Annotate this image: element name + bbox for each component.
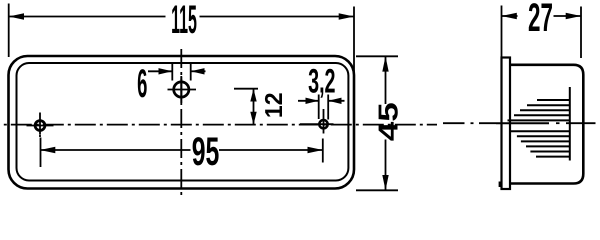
svg-text:45: 45 — [373, 102, 404, 141]
horizontal centerline (front view) — [0, 124, 437, 126]
dimension 27 (side view) — [502, 0, 582, 58]
svg-text:115: 115 — [171, 0, 197, 42]
side view: lens inner edge — [569, 87, 571, 161]
dimension 115 — [9, 0, 354, 72]
side view: plate foot mark — [499, 182, 501, 188]
dimension 6 (top hole) — [137, 62, 205, 106]
dimension 3,2 (small hole) — [298, 63, 345, 120]
left mounting hole — [27, 113, 54, 135]
side view: lens optic hatch lines — [508, 100, 571, 157]
side view: mounting plate — [502, 58, 511, 190]
svg-text:6: 6 — [137, 62, 147, 106]
svg-text:12: 12 — [261, 92, 288, 118]
vertical centerline (front view) — [180, 49, 182, 198]
svg-text:27: 27 — [528, 0, 553, 40]
dimension 45 — [356, 56, 404, 190]
centerline dot below left hole — [39, 135, 41, 137]
front view: outer housing outline — [9, 56, 355, 189]
dimension 95 — [40, 130, 323, 174]
right small hole (dia 3.2) — [300, 109, 334, 134]
hole extension solid overlays — [180, 77, 182, 102]
front view: inner lens outline — [17, 63, 349, 181]
top hole (dia 6) — [168, 76, 197, 103]
horizontal centerline (side view) — [443, 122, 596, 124]
side view: centerline solid crossing — [496, 122, 549, 124]
dimension 12 — [234, 89, 288, 125]
svg-text:95: 95 — [192, 130, 220, 174]
side view: lamp body outline — [511, 65, 584, 184]
svg-text:3,2: 3,2 — [308, 63, 335, 101]
